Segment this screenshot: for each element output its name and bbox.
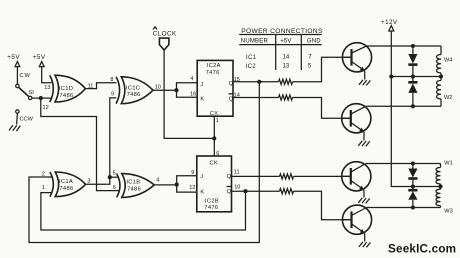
- svg-text:SeekIC.com: SeekIC.com: [388, 242, 456, 255]
- wire Q3 collector to winding W1 top: [366, 163, 441, 165]
- svg-text:+12V: +12V: [381, 19, 398, 26]
- svg-text:5: 5: [113, 171, 116, 177]
- svg-text:3: 3: [87, 178, 90, 184]
- svg-text:+5V: +5V: [280, 38, 291, 44]
- wire junction B to IC2A J pin 4: [177, 83, 198, 90]
- svg-text:7486: 7486: [59, 93, 73, 99]
- svg-text:10: 10: [234, 184, 240, 190]
- svg-text:CK: CK: [210, 161, 219, 167]
- node +12V top tap dot: [389, 74, 393, 78]
- wire switch junction down and right to IC1B pin 6: [41, 98, 119, 191]
- svg-text:13: 13: [44, 85, 50, 91]
- diode D2: [408, 77, 417, 107]
- node CLOCK label: [153, 27, 177, 38]
- node diode mid top dot: [411, 74, 415, 78]
- svg-text:7486: 7486: [127, 187, 141, 193]
- svg-text:16: 16: [190, 92, 196, 98]
- node diode mid bottom dot: [411, 184, 415, 188]
- svg-text:12: 12: [43, 105, 49, 111]
- svg-text:GND: GND: [307, 38, 321, 44]
- svg-text:+5V: +5V: [33, 54, 46, 61]
- node W2 bottom dot: [411, 104, 415, 108]
- svg-text:IC1C: IC1C: [126, 85, 140, 91]
- wire IC2B Qbar pin 10 to resistor R4: [232, 190, 280, 192]
- wire top center tap: [391, 76, 441, 78]
- wire Q1 collector to winding W4 top: [367, 45, 442, 47]
- svg-text:14: 14: [283, 55, 290, 61]
- wire IC1A pin 1 feedback from IC2B Qbar: [41, 191, 246, 230]
- diode D3: [408, 164, 417, 187]
- svg-text:SI: SI: [29, 90, 35, 96]
- node clock junction dot: [212, 136, 216, 140]
- svg-text:IC1: IC1: [246, 55, 257, 61]
- node junction B dot: [174, 88, 178, 92]
- ground for Q4: [359, 242, 370, 248]
- transistor Q1: [342, 43, 371, 86]
- svg-text:7476: 7476: [204, 205, 218, 211]
- wire junction C to IC2B J pin 9: [177, 176, 197, 185]
- node +5V supply 2 label: [33, 54, 46, 67]
- node switch junction dot: [39, 96, 43, 100]
- svg-text:W2: W2: [444, 95, 452, 101]
- svg-text:K: K: [200, 97, 204, 103]
- winding W3: [436, 187, 453, 215]
- ground below CCW: [9, 125, 20, 131]
- wire IC1D out to IC1C pin 8: [85, 83, 116, 89]
- wire IC1C out to junction B: [153, 89, 177, 91]
- svg-text:7486: 7486: [127, 92, 141, 98]
- ground for Q3: [358, 198, 369, 204]
- flip-flop IC2B 7476: [197, 156, 232, 212]
- svg-text:11: 11: [234, 170, 240, 176]
- clock connector symbol: [159, 38, 169, 50]
- transistor Q3: [342, 162, 371, 204]
- wire R1 to Q1 base: [293, 57, 352, 82]
- svg-text:K: K: [200, 190, 204, 196]
- diode D1: [408, 46, 417, 77]
- wire CCW contact to ground: [16, 113, 19, 124]
- wire junction A to IC1B pin 5: [110, 176, 118, 178]
- svg-text:6: 6: [113, 185, 116, 191]
- xor gate IC1A 7486: [50, 172, 86, 197]
- svg-text:W4: W4: [444, 58, 452, 64]
- svg-text:1: 1: [42, 185, 45, 191]
- resistor R3: [280, 174, 294, 179]
- svg-text:1: 1: [216, 118, 219, 124]
- svg-text:8: 8: [110, 77, 113, 83]
- svg-text:9: 9: [191, 170, 194, 176]
- resistor R2: [279, 95, 293, 100]
- svg-text:W1: W1: [444, 161, 452, 167]
- wire clock junction down to IC2B CK pin 6: [213, 138, 215, 156]
- svg-text:IC1D: IC1D: [59, 86, 73, 92]
- wire IC2A Q pin 15 to resistor R1: [233, 81, 279, 83]
- wire junction B to IC2A K pin 16: [177, 90, 198, 97]
- resistor R4: [280, 189, 294, 194]
- svg-text:10: 10: [155, 84, 161, 90]
- wire from +5V 2 to IC1D pin 13: [42, 67, 52, 83]
- wire Q2 collector to winding W2 bottom: [366, 105, 441, 107]
- svg-text:CW: CW: [20, 73, 31, 79]
- svg-text:IC1B: IC1B: [126, 179, 140, 185]
- wire IC1B out to junction C: [154, 184, 177, 186]
- wire R3 to Q3 base: [294, 175, 351, 177]
- svg-text:4: 4: [190, 76, 193, 82]
- svg-text:IC2: IC2: [246, 64, 257, 70]
- wire +12V rail down to winding center taps: [391, 31, 440, 187]
- winding W2: [437, 77, 453, 107]
- svg-text:W3: W3: [444, 208, 452, 214]
- node pin 15 dot: [257, 80, 261, 84]
- wire switch junction to IC1D pin 12: [41, 97, 52, 99]
- svg-text:7476: 7476: [206, 70, 220, 76]
- wire clock junction up to IC2A CX pin 1: [213, 116, 215, 138]
- ground for Q1: [359, 80, 370, 86]
- flip-flop IC2A 7476: [197, 60, 233, 117]
- node +5V supply 1 label: [7, 54, 20, 67]
- node +12V supply label: [381, 19, 398, 31]
- node winding bottom center tap dot: [438, 184, 442, 188]
- svg-text:J: J: [200, 82, 203, 88]
- switch S1 CCW contact: [16, 110, 19, 113]
- svg-text:Q: Q: [227, 174, 232, 180]
- svg-text:IC1A: IC1A: [59, 179, 73, 185]
- winding W1: [436, 161, 453, 187]
- svg-text:CCW: CCW: [20, 117, 34, 123]
- svg-text:Q: Q: [227, 189, 232, 195]
- node junction C dot: [175, 183, 179, 187]
- wire R2 to Q2 base: [293, 98, 351, 119]
- xor gate IC1B 7486: [117, 174, 155, 198]
- winding W4: [437, 46, 453, 77]
- svg-text:4: 4: [156, 178, 159, 184]
- transistor Q2: [342, 104, 371, 147]
- wire IC1C pin 9 down to junction A: [110, 98, 117, 177]
- svg-text:9: 9: [111, 92, 114, 98]
- node W4 top dot: [411, 44, 415, 48]
- wire IC1A pin 2 feedback from IC2A Q: [29, 82, 259, 243]
- wire IC2A Qbar pin 14 to resistor R2: [233, 97, 279, 99]
- switch S1 CW contact: [16, 84, 19, 87]
- svg-text:J: J: [200, 174, 203, 180]
- wire Q4 collector to winding W3 bottom: [367, 207, 441, 209]
- node W3 bottom dot: [411, 205, 415, 209]
- svg-text:13: 13: [283, 63, 290, 69]
- node winding top center tap dot: [439, 74, 443, 78]
- svg-text:7486: 7486: [59, 186, 73, 192]
- wire junction A down to IC1A output: [86, 177, 110, 184]
- wire from +5V 1 to CW contact: [16, 67, 18, 85]
- xor gate IC1D 7486: [50, 75, 86, 102]
- svg-text:CLOCK: CLOCK: [153, 30, 177, 37]
- power connections table: [239, 28, 323, 70]
- transistor Q4: [342, 205, 371, 247]
- svg-text:NUMBER: NUMBER: [241, 38, 269, 44]
- svg-text:12: 12: [189, 185, 195, 191]
- node pin 10 dot: [243, 189, 247, 193]
- resistor R1: [279, 79, 293, 84]
- switch S1 arm and common: [19, 88, 34, 100]
- node W1 top dot: [411, 161, 415, 165]
- svg-text:IC2A: IC2A: [207, 63, 221, 69]
- node junction A dot: [108, 175, 112, 179]
- svg-text:CX: CX: [210, 111, 219, 117]
- xor gate IC1C 7486: [116, 77, 153, 104]
- ground for Q2: [358, 141, 369, 147]
- svg-text:+5V: +5V: [7, 54, 20, 61]
- wire switch common to junction: [32, 97, 41, 99]
- diode D4: [408, 187, 417, 208]
- wire CLOCK down and to flip-flop clocks: [164, 50, 214, 138]
- svg-text:IC2B: IC2B: [205, 198, 219, 204]
- wire R4 to Q4 base: [294, 191, 352, 220]
- wire junction C to IC2B K pin 12: [177, 185, 197, 193]
- svg-text:POWER CONNECTIONS: POWER CONNECTIONS: [241, 28, 323, 35]
- wire IC2B Q pin 11 to resistor R3: [232, 175, 280, 177]
